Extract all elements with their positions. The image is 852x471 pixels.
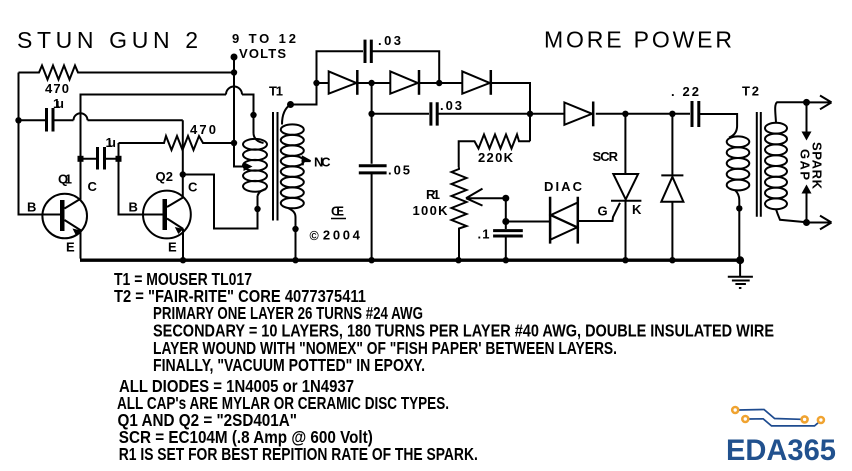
resistor 220K — [459, 135, 530, 168]
wire T2 primary top lead — [729, 126, 737, 138]
resistor 470 (top left) — [37, 66, 80, 80]
wire diode row — [317, 83, 531, 141]
wire T1 secondary bottom lead — [288, 208, 296, 259]
transformer T2 core — [757, 112, 761, 217]
wire wiper to DIAC — [506, 198, 550, 229]
wire Q1 collector net to T1 primary top — [81, 95, 254, 200]
wire left rail — [19, 73, 61, 215]
capacitor C1 1u — [19, 108, 74, 132]
transformer T2 secondary winding — [765, 123, 787, 134]
svg-text:100K: 100K — [413, 203, 449, 218]
node D5 top junction — [669, 111, 675, 117]
ground symbol — [728, 260, 753, 288]
node SCR anode junction — [622, 111, 628, 117]
transistor Q1 — [42, 194, 87, 239]
node diode row left — [313, 80, 319, 86]
capacitor .22 — [692, 101, 699, 127]
svg-text:VOLTS: VOLTS — [239, 46, 286, 61]
svg-text:.03: .03 — [378, 33, 401, 48]
svg-text:R1: R1 — [426, 187, 440, 202]
wire T2 secondary top lead — [775, 102, 806, 123]
node +V top dot (9 TO 12 VOLTS) — [231, 54, 238, 61]
svg-text:220K: 220K — [478, 150, 514, 165]
capacitor .05 — [359, 166, 387, 173]
capacitor .1 — [493, 231, 523, 236]
arrow tap into T1 primary — [244, 162, 253, 171]
svg-text:C: C — [188, 180, 198, 195]
svg-text:B: B — [129, 200, 138, 215]
wire T1 primary top lead curve — [254, 134, 264, 144]
svg-text:Q2: Q2 — [156, 169, 174, 184]
diode D3 — [462, 71, 489, 93]
node T2 primary on bus — [736, 256, 744, 264]
DIAC — [550, 197, 578, 244]
diode D4 — [564, 103, 592, 125]
SCR — [611, 114, 641, 259]
wire .22 to T2 — [699, 114, 737, 126]
node +V / 470#2 junction — [231, 140, 237, 146]
svg-text:.1: .1 — [478, 227, 490, 242]
svg-text:1u: 1u — [106, 135, 117, 150]
wire hop over Q1 collector — [74, 113, 183, 120]
arrow NC tap — [303, 157, 311, 165]
arrow spark bottom right — [807, 216, 832, 230]
svg-text:E: E — [168, 240, 177, 255]
svg-text:E: E — [66, 240, 75, 255]
svg-text:DIAC: DIAC — [544, 179, 583, 194]
wire Q2 collector to T1 primary bottom — [183, 175, 258, 229]
svg-text:K: K — [632, 202, 642, 217]
transformer T1 primary winding — [243, 139, 267, 150]
svg-text:EDA365: EDA365 — [726, 434, 836, 467]
node T1 primary bottom terminal dot — [254, 206, 260, 212]
svg-text:G: G — [598, 204, 608, 219]
resistor 470 (second) — [119, 136, 235, 150]
node T2 primary terminal dot — [736, 205, 742, 211]
transformer T1 secondary winding — [281, 124, 304, 134]
transistor Q2 — [143, 191, 191, 239]
svg-text:GAP: GAP — [798, 149, 813, 180]
svg-text:FINALLY, "VACUUM POTTED" IN EP: FINALLY, "VACUUM POTTED" IN EPOXY. — [153, 355, 425, 375]
capacitor .03 (mid) — [431, 102, 437, 125]
node C2 right junction on Q2 base rail — [116, 156, 122, 162]
node +V / 470 junction — [231, 69, 237, 75]
arrow spark top right — [807, 96, 832, 110]
node T1 secondary top dot — [287, 101, 294, 108]
node wiper / DIAC junction — [502, 218, 509, 225]
node T1 primary top terminal dot — [250, 112, 256, 118]
node T1 secondary bottom terminal dot — [292, 226, 298, 232]
wire 470 to +V rail — [80, 72, 234, 74]
node diode row / .03 junction — [368, 80, 374, 86]
node spark gap bottom — [803, 219, 810, 226]
node .05 on bus — [368, 257, 374, 263]
svg-text:C: C — [88, 179, 98, 194]
diode D5 (vertical) — [661, 114, 683, 259]
capacitor .03 (top) — [365, 40, 371, 63]
arrow spark gap down — [806, 102, 808, 133]
svg-text:SCR: SCR — [593, 149, 619, 164]
wire +V rail vertical — [234, 57, 244, 167]
wire .03 top loop — [317, 51, 440, 83]
node SCR cathode on bus — [622, 257, 628, 263]
wire D4 row — [530, 113, 690, 115]
svg-text:Œ: Œ — [331, 204, 344, 219]
wire T2 primary bottom lead — [735, 190, 739, 259]
node D5 on bus — [669, 257, 675, 263]
diode D2 — [390, 71, 417, 93]
transformer T1 core — [273, 112, 278, 221]
node wiper junction — [502, 195, 509, 202]
node diode row / top .03 right junction — [436, 80, 442, 86]
node .1 on bus — [503, 257, 509, 263]
svg-text:©: © — [310, 229, 320, 243]
wire mid .03 row — [372, 83, 530, 164]
node T1 secondary on bus — [292, 257, 298, 263]
logo EDA365 pads — [732, 407, 824, 423]
wire Q2 collector vertical — [182, 120, 184, 197]
svg-text:470: 470 — [45, 81, 69, 96]
node mid .03 left junction — [368, 111, 374, 117]
svg-text:Q1: Q1 — [58, 172, 72, 187]
svg-text:2004: 2004 — [323, 228, 361, 243]
wire Q2 base rail — [119, 143, 164, 215]
ground bus — [80, 259, 742, 262]
capacitor C2 1u — [81, 158, 119, 160]
resistor R1 100K potentiometer — [452, 167, 467, 258]
arrow R1 wiper — [466, 189, 506, 206]
svg-text:.05: .05 — [388, 163, 410, 178]
svg-text:470: 470 — [190, 122, 216, 137]
svg-text:MORE POWER: MORE POWER — [544, 27, 732, 53]
node Q2 emitter on bus — [180, 257, 186, 263]
svg-text:.03: .03 — [440, 98, 462, 113]
arrow spark gap up — [806, 192, 808, 223]
wire hop over +V rail — [226, 87, 242, 95]
wire DIAC to SCR gate — [578, 203, 620, 221]
diode D1 — [329, 71, 357, 93]
svg-text:R1 IS SET FOR BEST REPITION RA: R1 IS SET FOR BEST REPITION RATE OF THE … — [119, 444, 478, 464]
svg-text:T1: T1 — [269, 84, 283, 99]
node junction left rail / cap 1u — [15, 117, 21, 123]
wire T1 secondary top lead — [282, 83, 317, 125]
svg-text:B: B — [27, 200, 36, 215]
wire T1 primary bottom lead curve — [258, 189, 267, 196]
node mid .03 right junction — [527, 111, 533, 117]
transformer T2 primary winding — [727, 136, 750, 147]
node spark gap top — [803, 99, 810, 106]
svg-text:NC: NC — [314, 155, 331, 170]
node C2 left junction on Q1 collector — [78, 156, 84, 162]
wire T2 secondary bottom lead — [776, 209, 807, 222]
node R1 on bus — [455, 257, 461, 263]
svg-text:1u: 1u — [53, 96, 64, 111]
node Q2 collector junction — [180, 171, 186, 177]
logo EDA365 traces — [739, 410, 821, 426]
